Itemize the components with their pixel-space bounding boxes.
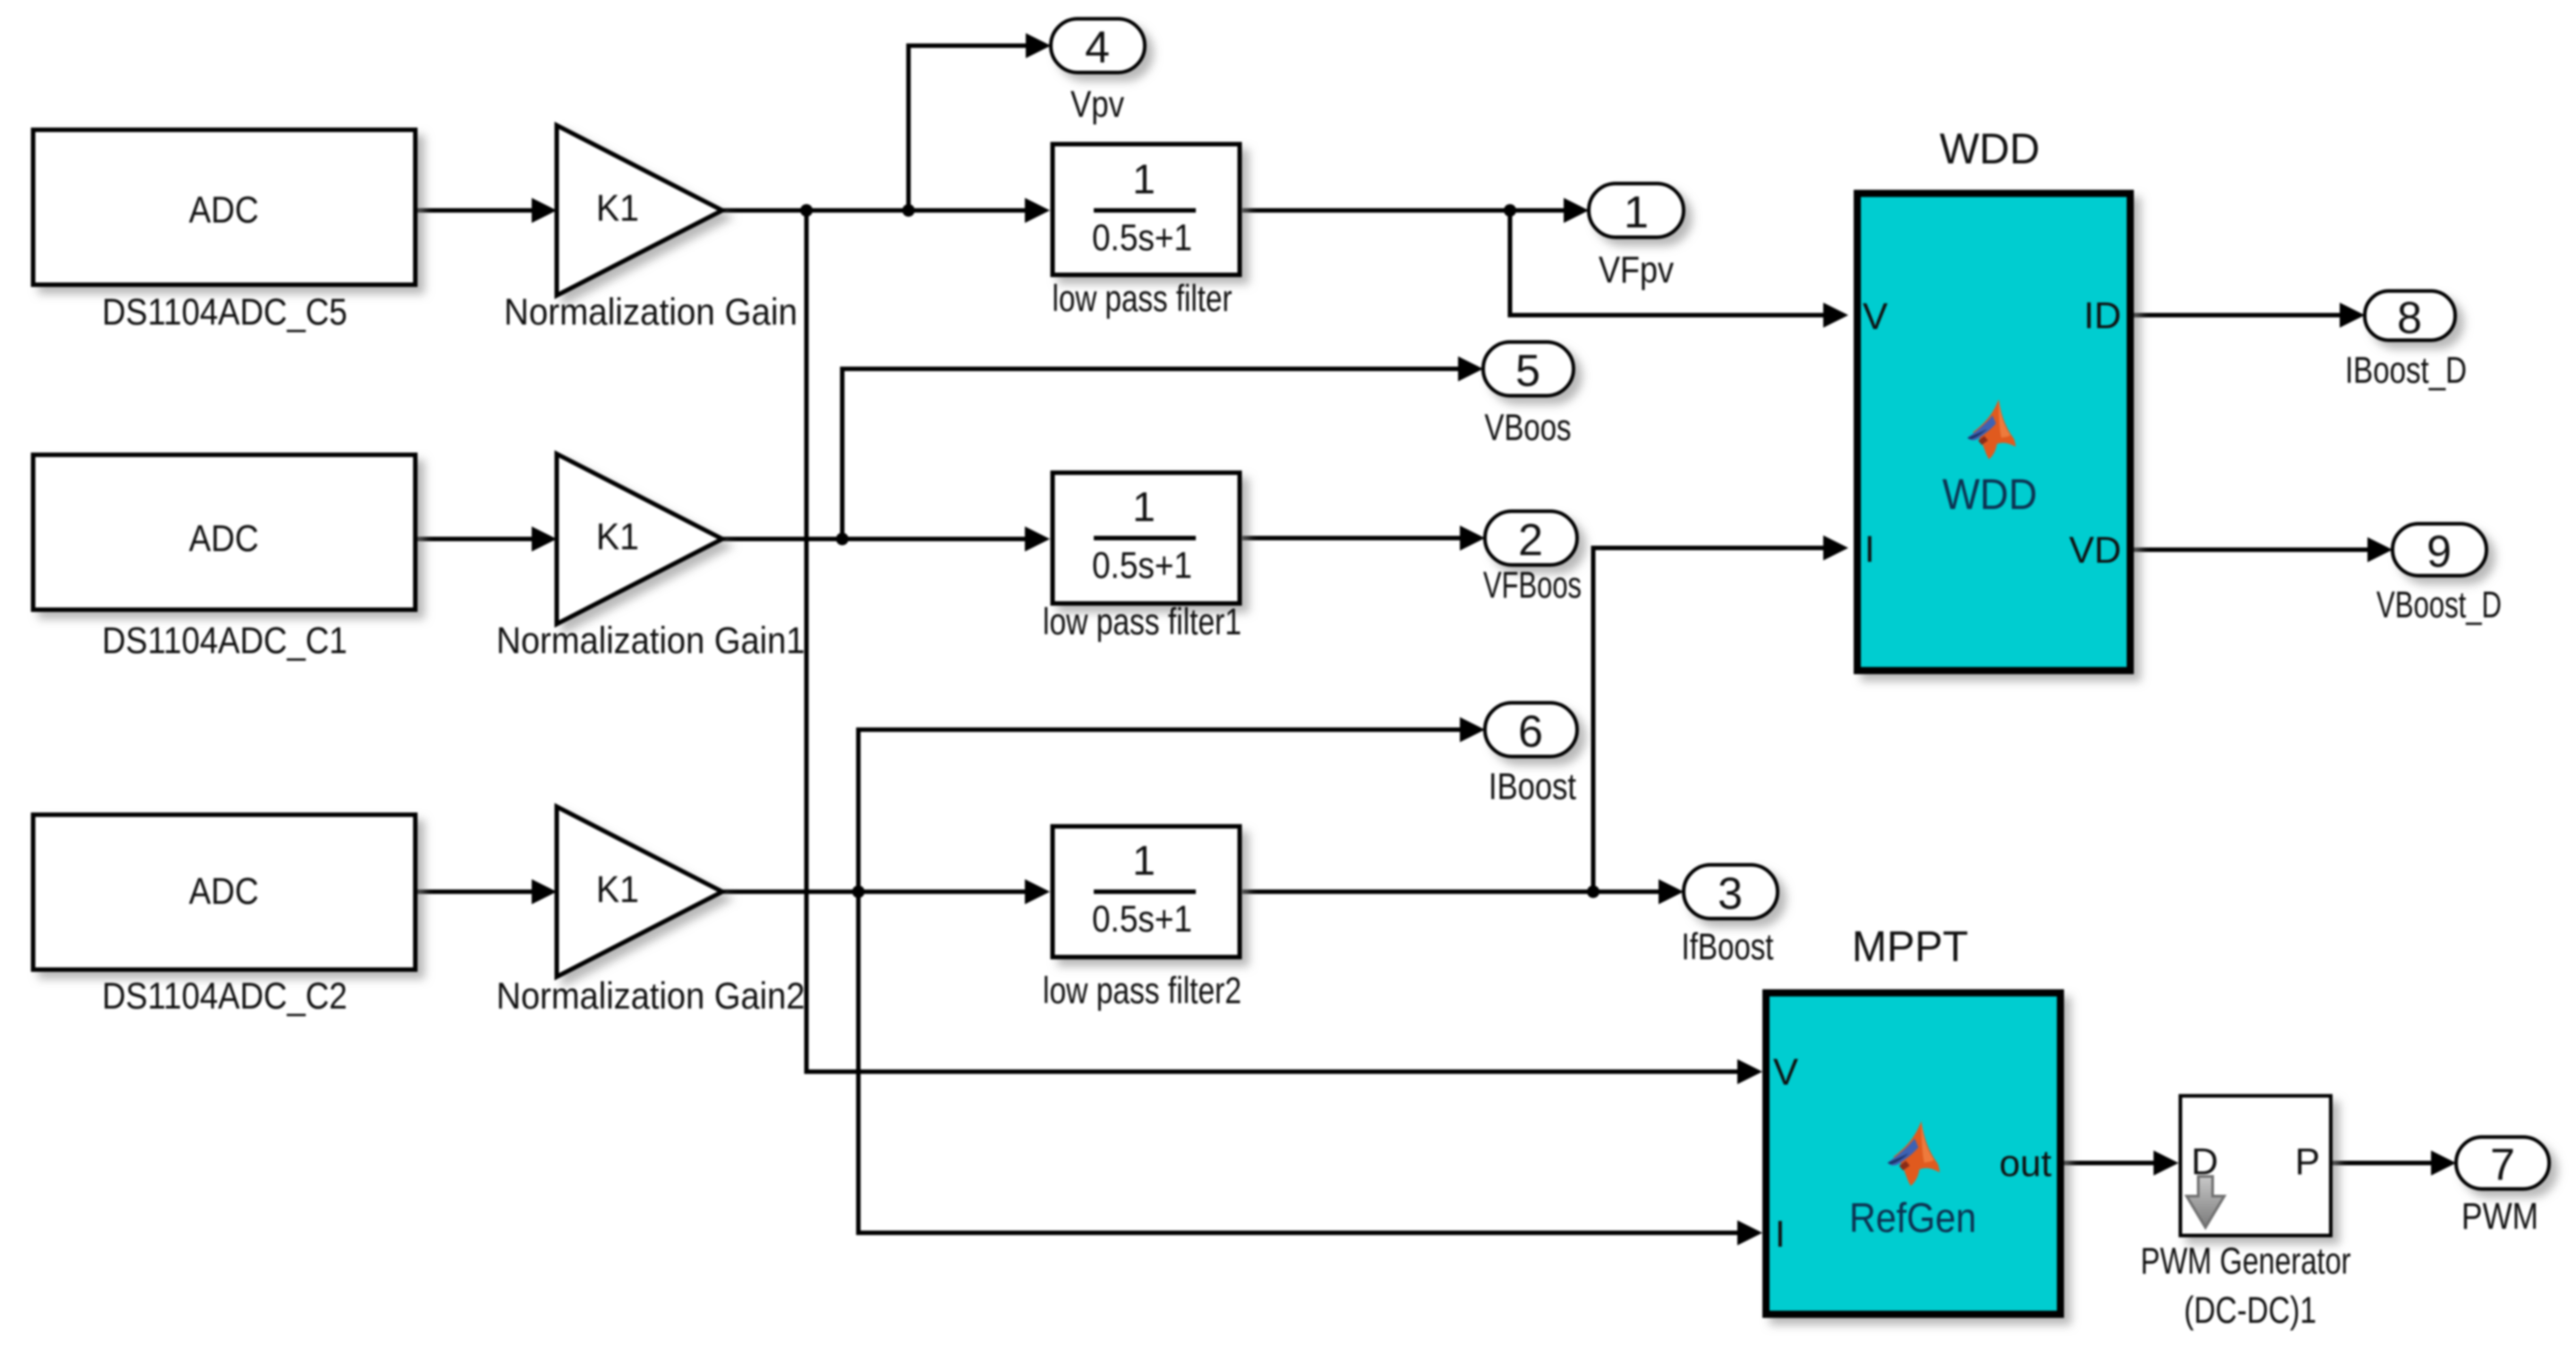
svg-text:IBoost: IBoost — [1488, 765, 1576, 808]
svg-text:VBoos: VBoos — [1485, 406, 1572, 449]
svg-text:V: V — [1773, 1051, 1798, 1093]
svg-text:VD: VD — [2069, 529, 2121, 571]
svg-text:PWM: PWM — [2461, 1195, 2538, 1237]
svg-text:WDD: WDD — [1940, 126, 2040, 174]
svg-text:RefGen: RefGen — [1849, 1194, 1976, 1241]
svg-text:out: out — [2000, 1142, 2052, 1184]
svg-text:3: 3 — [1718, 868, 1743, 919]
svg-text:ID: ID — [2084, 295, 2121, 337]
svg-text:4: 4 — [1085, 22, 1110, 73]
svg-text:7: 7 — [2490, 1140, 2515, 1190]
svg-text:IBoost_D: IBoost_D — [2345, 349, 2467, 391]
svg-text:1: 1 — [1132, 156, 1156, 202]
svg-text:8: 8 — [2397, 293, 2422, 343]
svg-text:P: P — [2295, 1141, 2320, 1183]
svg-text:ADC: ADC — [189, 870, 259, 912]
svg-text:K1: K1 — [596, 516, 639, 558]
svg-text:ADC: ADC — [189, 189, 259, 231]
svg-text:low pass filter2: low pass filter2 — [1043, 970, 1241, 1012]
svg-text:VFBoos: VFBoos — [1483, 564, 1582, 606]
svg-text:DS1104ADC_C2: DS1104ADC_C2 — [102, 975, 347, 1017]
svg-text:low pass filter: low pass filter — [1053, 278, 1233, 320]
svg-text:Normalization Gain2: Normalization Gain2 — [497, 975, 806, 1017]
svg-text:Normalization Gain: Normalization Gain — [504, 291, 798, 333]
svg-text:MPPT: MPPT — [1852, 924, 1968, 971]
svg-text:VFpv: VFpv — [1599, 249, 1674, 291]
svg-text:0.5s+1: 0.5s+1 — [1092, 544, 1192, 586]
svg-text:0.5s+1: 0.5s+1 — [1092, 217, 1192, 259]
svg-text:6: 6 — [1518, 706, 1543, 757]
svg-text:V: V — [1863, 295, 1888, 338]
svg-text:K1: K1 — [596, 868, 639, 911]
svg-text:0.5s+1: 0.5s+1 — [1092, 898, 1192, 940]
svg-text:1: 1 — [1132, 483, 1156, 530]
svg-text:PWM Generator: PWM Generator — [2141, 1240, 2351, 1282]
svg-text:DS1104ADC_C5: DS1104ADC_C5 — [102, 291, 347, 333]
svg-text:Normalization Gain1: Normalization Gain1 — [497, 620, 806, 662]
svg-text:9: 9 — [2427, 526, 2452, 577]
svg-text:Vpv: Vpv — [1070, 83, 1124, 125]
svg-text:1: 1 — [1624, 187, 1649, 237]
svg-text:2: 2 — [1518, 515, 1543, 565]
svg-text:K1: K1 — [596, 187, 639, 229]
svg-text:(DC-DC)1: (DC-DC)1 — [2184, 1289, 2316, 1331]
svg-text:low pass filter1: low pass filter1 — [1043, 601, 1241, 643]
svg-text:WDD: WDD — [1942, 472, 2037, 519]
svg-text:VBoost_D: VBoost_D — [2376, 584, 2502, 626]
svg-text:1: 1 — [1132, 837, 1156, 884]
svg-text:I: I — [1864, 528, 1875, 570]
svg-text:D: D — [2191, 1141, 2218, 1183]
svg-text:5: 5 — [1515, 346, 1540, 396]
svg-text:IfBoost: IfBoost — [1682, 926, 1774, 968]
svg-text:ADC: ADC — [189, 517, 259, 560]
svg-text:I: I — [1775, 1213, 1786, 1255]
svg-text:DS1104ADC_C1: DS1104ADC_C1 — [102, 620, 347, 662]
